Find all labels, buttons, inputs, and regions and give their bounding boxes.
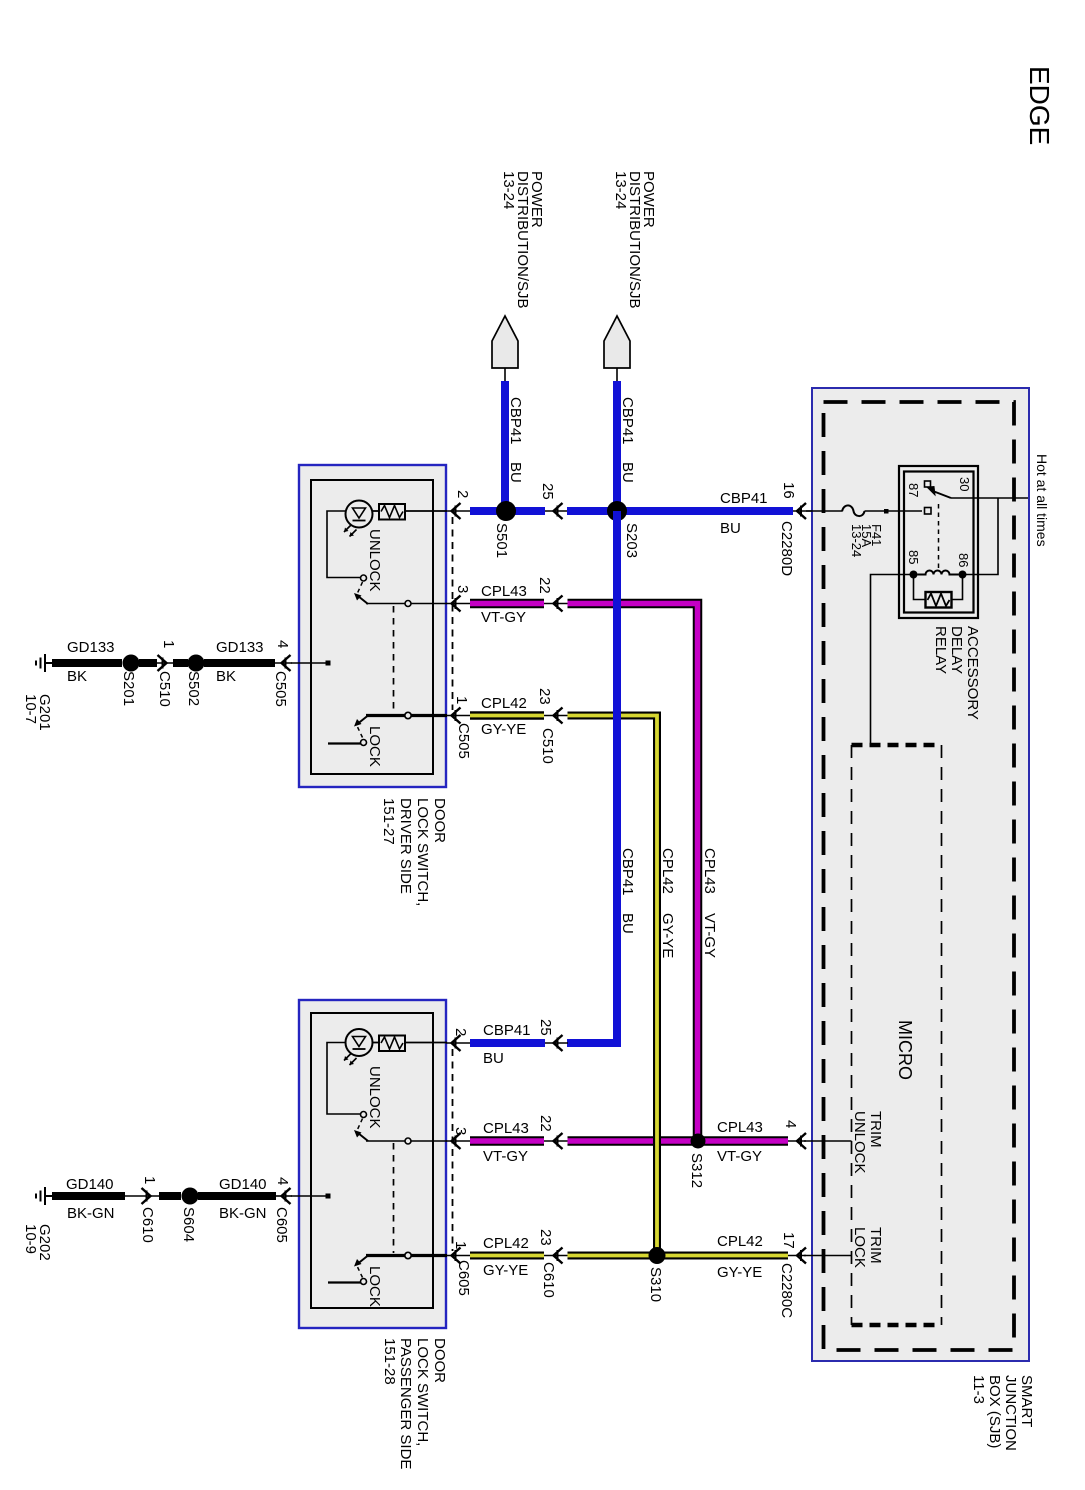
wire thin under 22 arrow driver: [544, 603, 568, 605]
wire segment C610 to S604: [159, 1192, 181, 1200]
passenger unlock switch dashes: [358, 1119, 363, 1130]
wire 85 branch to MICRO: [871, 575, 914, 744]
wire pin3 row inside: [366, 603, 447, 605]
MICRO module dashed box left edge: [851, 745, 853, 1325]
svg-text:17: 17: [780, 1232, 797, 1249]
svg-text:GD140: GD140: [66, 1176, 114, 1193]
wire thin under 25 arrow passenger: [545, 1042, 568, 1044]
wire pin1 row inside passenger (thick): [366, 1254, 447, 1257]
svg-text:DOOR: DOOR: [431, 1338, 448, 1383]
svg-text:C510: C510: [539, 728, 556, 764]
wire CBP41 BU pentagon B drop: [613, 381, 621, 513]
svg-text:RELAY: RELAY: [932, 626, 949, 674]
connector arrow pin 2 driver: [452, 503, 461, 519]
connector arrow 23 driver: [554, 708, 563, 724]
wire 86 branch to pin30 feed: [963, 498, 999, 575]
svg-text:LOCK SWITCH,: LOCK SWITCH,: [414, 1338, 431, 1446]
svg-text:4: 4: [782, 1120, 799, 1128]
connector arrow pin 1 driver: [452, 708, 461, 724]
wire GD133 BK segment 1: [52, 659, 122, 667]
wire thin under 22 arrow passenger: [544, 1140, 568, 1142]
svg-text:10-7: 10-7: [22, 694, 39, 724]
wire thin pin1 row outside: [446, 715, 472, 717]
svg-text:CPL43: CPL43: [481, 583, 527, 600]
svg-text:BU: BU: [720, 520, 741, 537]
relay coil dot 85: [910, 571, 918, 579]
pin3 row test circle: [405, 601, 411, 607]
wire trim unlock stub: [804, 1140, 852, 1142]
passenger lock switch dashes: [358, 1267, 363, 1278]
svg-text:CPL43: CPL43: [483, 1120, 529, 1137]
passenger unlock arm arrowhead: [354, 1130, 362, 1138]
wire CPL42 GY-YE band pin1 to C510: [470, 711, 544, 720]
svg-text:S201: S201: [120, 671, 137, 706]
svg-text:BU: BU: [619, 913, 636, 934]
svg-text:C505: C505: [455, 723, 472, 759]
svg-text:C610: C610: [139, 1207, 156, 1243]
junction square on 87 wire: [884, 509, 889, 514]
svg-text:C2280C: C2280C: [778, 1263, 795, 1318]
pin1 test circle passenger: [405, 1252, 411, 1258]
svg-text:C510: C510: [156, 671, 173, 707]
svg-text:86: 86: [956, 553, 971, 567]
passenger LED triangle: [353, 1037, 366, 1047]
wire resistor to pin2 passenger: [405, 1042, 447, 1044]
svg-text:GY-YE: GY-YE: [481, 721, 526, 738]
svg-text:UNLOCK: UNLOCK: [851, 1111, 868, 1174]
driver unlock switch dashes: [358, 582, 363, 593]
relay coil 85-86: [918, 571, 959, 575]
svg-text:BK: BK: [67, 668, 87, 685]
relay resistor branch left lead: [914, 575, 926, 600]
wire pin3 row inside passenger: [366, 1140, 447, 1142]
driver LED triangle: [353, 508, 366, 518]
svg-text:MICRO: MICRO: [895, 1020, 915, 1080]
wire CPL42 band passenger pin1: [470, 1252, 544, 1260]
svg-text:C605: C605: [455, 1260, 472, 1296]
driver resistor box: [379, 504, 405, 520]
wire thin trim unlock arrow: [788, 1140, 806, 1142]
relay switch arm: [932, 491, 952, 499]
svg-text:S604: S604: [180, 1207, 197, 1242]
wire GD140 BK-GN segment 1: [52, 1192, 125, 1200]
svg-text:GY-YE: GY-YE: [659, 913, 676, 958]
wire CPL43 VT-GY band pin3 to C510: [470, 599, 544, 609]
wire thin pin3 row passenger outside: [446, 1140, 472, 1142]
passenger mechanical dashed link: [393, 1143, 395, 1253]
svg-text:3: 3: [454, 585, 471, 593]
svg-text:22: 22: [536, 577, 553, 594]
passenger resistor zigzag: [381, 1037, 403, 1049]
svg-text:4: 4: [274, 1177, 291, 1185]
svg-text:LOCK: LOCK: [366, 726, 383, 767]
wire CPL43 band S312 row: [568, 1136, 789, 1146]
driver lock common stub: [328, 742, 361, 744]
svg-text:JUNCTION: JUNCTION: [1002, 1375, 1019, 1451]
svg-text:25: 25: [537, 1019, 554, 1036]
junction S604: [182, 1188, 199, 1205]
passenger lock common circle: [361, 1279, 367, 1285]
connector arrow C505 ground: [282, 655, 291, 671]
svg-text:GD133: GD133: [67, 639, 115, 656]
svg-text:2: 2: [452, 1028, 469, 1036]
wire CBP41 BU band S501 to C2280D: [567, 507, 793, 515]
svg-text:16: 16: [780, 482, 797, 499]
connector arrow pin 1 passenger: [452, 1248, 461, 1264]
wire CBP41 BU vertical run: [613, 511, 621, 1047]
SJB inner dashed border: [824, 402, 1015, 1350]
svg-text:13-24: 13-24: [849, 524, 864, 557]
wire thin pin1 row passenger outside: [446, 1255, 472, 1257]
connector dashed line C505: [452, 517, 454, 710]
passenger unlock switch arm: [358, 1133, 368, 1141]
off-page connector pentagon B: [604, 316, 630, 368]
junction S501: [496, 501, 516, 521]
junction S203: [607, 501, 627, 521]
wire thin pin2 row passenger outside: [446, 1042, 472, 1044]
relay resistor R box: [926, 592, 952, 608]
wire LED to resistor passenger: [373, 1042, 380, 1044]
svg-text:CPL42: CPL42: [481, 695, 527, 712]
wire CPL42 band S310 row: [568, 1252, 789, 1260]
driver LED circle: [346, 501, 373, 528]
passenger LED emission arrows: [344, 1054, 357, 1066]
svg-text:C2280D: C2280D: [778, 521, 795, 576]
svg-text:BU: BU: [507, 462, 524, 483]
wire relay pin30 to hot feed: [951, 497, 1028, 499]
driver lock switch dashes: [358, 727, 363, 738]
svg-text:23: 23: [536, 688, 553, 705]
connector arrow pin 3 passenger: [452, 1133, 461, 1149]
svg-text:BK-GN: BK-GN: [219, 1205, 267, 1222]
wire segment S201 to C510: [139, 659, 157, 667]
svg-text:C610: C610: [540, 1262, 557, 1298]
wire LED to resistor: [373, 510, 380, 512]
svg-text:DELAY: DELAY: [948, 626, 965, 674]
ground entry junction square: [326, 661, 331, 666]
connector arrow 25 top: [554, 503, 563, 519]
passenger switch inner box: [311, 1013, 433, 1308]
driver unlock common circle: [361, 575, 367, 581]
wire GD140 BK-GN segment 2: [198, 1192, 276, 1200]
relay mechanical dashed link: [938, 504, 940, 568]
svg-text:BU: BU: [619, 462, 636, 483]
driver lock switch arm: [358, 716, 368, 724]
svg-text:ACCESSORY: ACCESSORY: [964, 626, 981, 720]
junction S312: [691, 1134, 706, 1149]
svg-text:BK-GN: BK-GN: [67, 1205, 115, 1222]
svg-text:CBP41: CBP41: [619, 848, 636, 896]
svg-text:GY-YE: GY-YE: [483, 1262, 528, 1279]
passenger LED circle: [346, 1029, 373, 1056]
wire thin C2280D entry: [793, 510, 812, 512]
off-page connector pentagon A: [492, 316, 518, 368]
svg-text:GD140: GD140: [219, 1176, 267, 1193]
svg-text:S310: S310: [647, 1267, 664, 1302]
connector arrow 22 passenger: [554, 1133, 563, 1149]
passenger lock arm arrowhead: [354, 1259, 362, 1267]
svg-text:CBP41: CBP41: [483, 1022, 531, 1039]
svg-text:TRIM: TRIM: [867, 1111, 884, 1148]
driver lock common circle: [361, 740, 367, 746]
svg-text:C605: C605: [273, 1207, 290, 1243]
wire CBP41 BU pentagon A drop: [501, 381, 509, 513]
driver switch inner box: [311, 480, 433, 774]
svg-text:13-24: 13-24: [500, 171, 517, 209]
wire CBP41 BU passenger row corner: [567, 1039, 621, 1047]
connector arrow pin 3 driver: [452, 596, 461, 612]
connector arrow C605 ground: [282, 1188, 291, 1204]
wire resistor to pin2: [405, 510, 447, 512]
connector arrow 25 passenger: [554, 1035, 563, 1051]
svg-text:S312: S312: [688, 1153, 705, 1188]
driver unlock arm arrowhead: [354, 593, 362, 601]
connector dashed line C605: [452, 1049, 454, 1251]
passenger door lock switch outer box: [299, 1000, 446, 1328]
driver LED cathode bar: [353, 520, 366, 522]
svg-text:SMART: SMART: [1018, 1375, 1035, 1427]
junction S502: [188, 655, 205, 672]
connector arrow 23 passenger: [554, 1248, 563, 1264]
wire thin trim lock arrow: [788, 1255, 806, 1257]
driver unlock switch arm: [358, 596, 368, 604]
svg-text:3: 3: [452, 1127, 469, 1135]
driver resistor zigzag: [381, 506, 403, 518]
svg-text:CPL43: CPL43: [701, 848, 718, 894]
wire thin pin3 row outside: [446, 603, 472, 605]
svg-text:VT-GY: VT-GY: [481, 609, 526, 626]
wire CPL43 band passenger pin3: [470, 1136, 544, 1146]
svg-text:Hot at all times: Hot at all times: [1034, 454, 1050, 547]
wire thin C505 ground arrow: [275, 662, 292, 664]
wire 87 to fuse to C2280D: [806, 510, 922, 512]
driver lock arm arrowhead: [354, 719, 362, 727]
passenger lock common stub: [328, 1281, 361, 1283]
svg-text:BK: BK: [216, 668, 236, 685]
smart junction box outline: [812, 388, 1029, 1361]
wire thin under 23 arrow passenger: [544, 1255, 568, 1257]
svg-text:85: 85: [906, 550, 921, 564]
svg-text:CPL42: CPL42: [483, 1235, 529, 1252]
svg-text:13-24: 13-24: [612, 171, 629, 209]
relay contact 87 square (top): [925, 481, 931, 487]
MICRO module dashed box right edge: [941, 745, 943, 1325]
svg-text:2: 2: [454, 490, 471, 498]
MICRO module dashed box top edge: [852, 743, 942, 748]
MICRO module dashed box bottom edge: [852, 1323, 942, 1328]
pentagon A stem: [504, 368, 506, 382]
svg-text:C505: C505: [272, 671, 289, 707]
pentagon B stem: [616, 368, 618, 382]
svg-text:S501: S501: [493, 523, 510, 558]
connector arrow 4 C2280C: [797, 1133, 806, 1149]
svg-text:10-9: 10-9: [22, 1224, 39, 1254]
passenger unlock common circle: [361, 1112, 367, 1118]
wire thin under C510 arrow: [157, 662, 174, 664]
ground entry junction square passenger: [326, 1194, 331, 1199]
connector arrow 16 C2280D: [797, 503, 806, 519]
relay terminal 87 square on wire: [925, 508, 932, 515]
svg-text:CPL43: CPL43: [717, 1119, 763, 1136]
wire trim lock stub: [804, 1255, 852, 1257]
svg-text:DRIVER SIDE: DRIVER SIDE: [397, 798, 414, 894]
wire pin1 row inside (thick): [366, 714, 447, 717]
ground symbol G202: [36, 1187, 53, 1205]
wire GD133 BK segment 2: [204, 659, 275, 667]
wire ground entry passenger: [291, 1195, 326, 1197]
svg-text:S203: S203: [623, 523, 640, 558]
svg-text:VT-GY: VT-GY: [717, 1148, 762, 1165]
svg-text:EDGE: EDGE: [1024, 66, 1055, 145]
svg-text:1: 1: [160, 640, 177, 648]
wire CBP41 BU band pin2 to C510: [470, 507, 545, 515]
svg-text:CBP41: CBP41: [507, 397, 524, 445]
svg-text:23: 23: [537, 1229, 554, 1246]
svg-text:1: 1: [452, 1241, 469, 1249]
relay U1 outer box: [899, 466, 978, 618]
svg-text:87: 87: [906, 483, 921, 497]
passenger LED cathode bar: [353, 1048, 366, 1050]
passenger resistor box: [379, 1036, 405, 1052]
relay U1 inner box: [904, 472, 974, 613]
wire CPL43 VT-GY vertical run: [568, 604, 698, 1142]
relay resistor branch right lead: [952, 575, 963, 600]
svg-text:S502: S502: [185, 671, 202, 706]
relay switch arm arrowhead: [927, 487, 935, 496]
svg-text:30: 30: [957, 477, 972, 491]
svg-text:151-28: 151-28: [381, 1338, 398, 1385]
svg-text:4: 4: [274, 640, 291, 648]
pin3 test circle passenger: [405, 1138, 411, 1144]
driver door lock switch outer box: [299, 465, 446, 787]
wire GY-YE crossing patch over CPL43: [653, 1130, 661, 1152]
connector arrow pin 2 passenger: [452, 1035, 461, 1051]
passenger lock switch arm: [358, 1256, 368, 1264]
wire thin pin2 row driver feed: [446, 510, 472, 512]
pin1 row test circle: [405, 712, 411, 718]
svg-text:11-3: 11-3: [970, 1375, 987, 1404]
junction S201: [123, 655, 140, 672]
svg-text:CBP41: CBP41: [720, 490, 768, 507]
svg-text:GY-YE: GY-YE: [717, 1264, 762, 1281]
svg-text:VT-GY: VT-GY: [701, 913, 718, 958]
connector arrow C610 ground (right): [142, 1188, 151, 1204]
ground symbol G201: [36, 654, 53, 672]
svg-text:GD133: GD133: [216, 639, 264, 656]
relay resistor zigzag: [928, 594, 950, 607]
svg-text:22: 22: [537, 1115, 554, 1132]
wire CPL42 GY-YE vertical run: [568, 716, 658, 1256]
fuse F41 symbol: [842, 505, 865, 516]
connector arrow C510 ground (right): [158, 655, 167, 671]
wire thin under 23 arrow driver: [544, 715, 568, 717]
driver LED emission arrows: [344, 525, 357, 537]
wire thin under 25 arrow: [545, 510, 568, 512]
svg-text:CPL42: CPL42: [717, 1233, 763, 1250]
junction S310: [649, 1247, 666, 1264]
svg-text:151-27: 151-27: [380, 798, 397, 845]
connector arrow 22 driver: [554, 596, 563, 612]
relay coil dot 86: [959, 571, 967, 579]
svg-text:PASSENGER SIDE: PASSENGER SIDE: [397, 1338, 414, 1469]
svg-text:UNLOCK: UNLOCK: [366, 529, 383, 592]
wire segment C510 to S502: [173, 659, 188, 667]
svg-text:DOOR: DOOR: [431, 798, 448, 843]
svg-text:25: 25: [539, 483, 556, 500]
wire ground entry driver: [291, 662, 326, 664]
svg-text:1: 1: [141, 1176, 158, 1184]
driver switch mechanical dashed link: [393, 606, 395, 713]
wire thin under C610 arrow passenger: [125, 1195, 159, 1197]
svg-text:BU: BU: [483, 1050, 504, 1067]
svg-text:LOCK: LOCK: [851, 1227, 868, 1268]
svg-text:LOCK: LOCK: [366, 1266, 383, 1307]
svg-text:TRIM: TRIM: [867, 1227, 884, 1264]
wire CBP41 band passenger pin2: [470, 1039, 545, 1047]
wire LED left link passenger: [327, 1043, 361, 1115]
connector arrow 17 C2280C: [797, 1248, 806, 1264]
wire thin C605 ground arrow: [276, 1195, 292, 1197]
svg-text:VT-GY: VT-GY: [483, 1148, 528, 1165]
svg-text:1: 1: [453, 696, 470, 704]
svg-text:CBP41: CBP41: [619, 397, 636, 445]
wire LED left link to unlock common: [327, 511, 361, 578]
svg-text:UNLOCK: UNLOCK: [366, 1066, 383, 1129]
svg-text:LOCK SWITCH,: LOCK SWITCH,: [414, 798, 431, 906]
svg-text:BOX (SJB): BOX (SJB): [986, 1375, 1003, 1448]
svg-text:CPL42: CPL42: [659, 848, 676, 894]
